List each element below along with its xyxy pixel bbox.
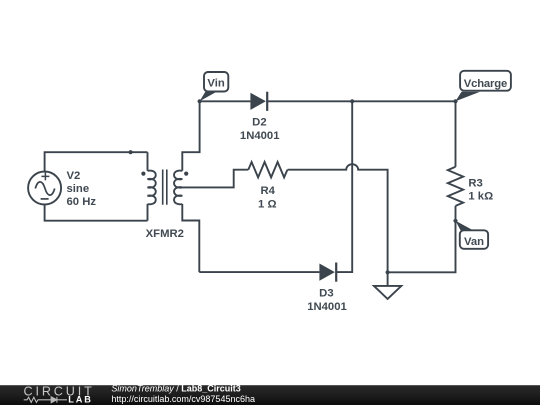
svg-text:1 kΩ: 1 kΩ [468, 191, 493, 203]
svg-text:Van: Van [464, 236, 484, 248]
wire Vin node to D2 anode [200, 100, 251, 102]
resistor R3 [448, 167, 463, 206]
svg-text:LAB: LAB [68, 395, 92, 405]
svg-text:1N4001: 1N4001 [240, 130, 280, 142]
node label Van [456, 221, 489, 249]
diode D2 [250, 92, 267, 111]
svg-text:sine: sine [67, 183, 90, 195]
secondary lead top [182, 101, 199, 171]
resistor R4 [248, 162, 287, 177]
svg-text:D3: D3 [319, 288, 333, 300]
secondary polarity dot [184, 172, 188, 176]
wire R3 bottom to Van node [455, 206, 457, 221]
svg-text:Vcharge: Vcharge [464, 78, 508, 90]
primary polarity dot [141, 172, 145, 176]
node dot Vin [198, 99, 202, 103]
svg-text:60 Hz: 60 Hz [67, 196, 97, 208]
svg-text:R3: R3 [468, 177, 482, 189]
wire D2 cathode to top junction [267, 100, 352, 102]
wire transformer center tap to R4 [182, 170, 248, 188]
transformer core [163, 170, 167, 205]
node dot Van [453, 219, 457, 223]
wire Vcharge down to R3 [455, 101, 457, 167]
svg-text:R4: R4 [260, 185, 275, 197]
transformer XFMR2 [148, 101, 200, 272]
wire top junction to Vcharge corner [352, 100, 455, 102]
svg-text:D2: D2 [252, 117, 266, 129]
svg-text:SimonTremblay / Lab8_Circuit3: SimonTremblay / Lab8_Circuit3 [111, 383, 240, 393]
svg-text:http://circuitlab.com/cv987545: http://circuitlab.com/cv987545nc6ha [111, 394, 255, 404]
node dot ground junction [386, 270, 390, 274]
svg-text:Vin: Vin [207, 78, 224, 90]
wire V2 top to transformer primary [45, 152, 148, 171]
node dot top junction [350, 99, 354, 103]
wire Van down and left to ground junction [388, 221, 456, 272]
secondary lead bottom [182, 204, 199, 272]
wire D3 anode from transformer bottom [199, 271, 319, 273]
logo schematic line: wire, resistor, diode [24, 397, 67, 403]
node label Vcharge [456, 71, 511, 102]
node label Vin [200, 72, 229, 101]
svg-text:V2: V2 [67, 170, 81, 182]
svg-text:1 Ω: 1 Ω [258, 199, 276, 211]
wire V2 bottom to transformer primary bottom [45, 205, 148, 221]
wire D3 cathode up to top junction [336, 101, 352, 272]
primary lead bottom [147, 204, 149, 221]
wire R4 right with hop over vertical, to ground drop [288, 164, 388, 272]
ground [374, 272, 401, 299]
svg-text:XFMR2: XFMR2 [146, 228, 184, 240]
secondary winding [174, 171, 182, 205]
svg-text:1N4001: 1N4001 [307, 301, 347, 313]
node dot Vcharge [453, 99, 457, 103]
node dot on V2 top wire [129, 150, 133, 154]
primary winding [148, 171, 156, 205]
primary lead top [147, 152, 149, 171]
diode D3 [319, 263, 336, 282]
voltage source V2 [28, 172, 61, 205]
